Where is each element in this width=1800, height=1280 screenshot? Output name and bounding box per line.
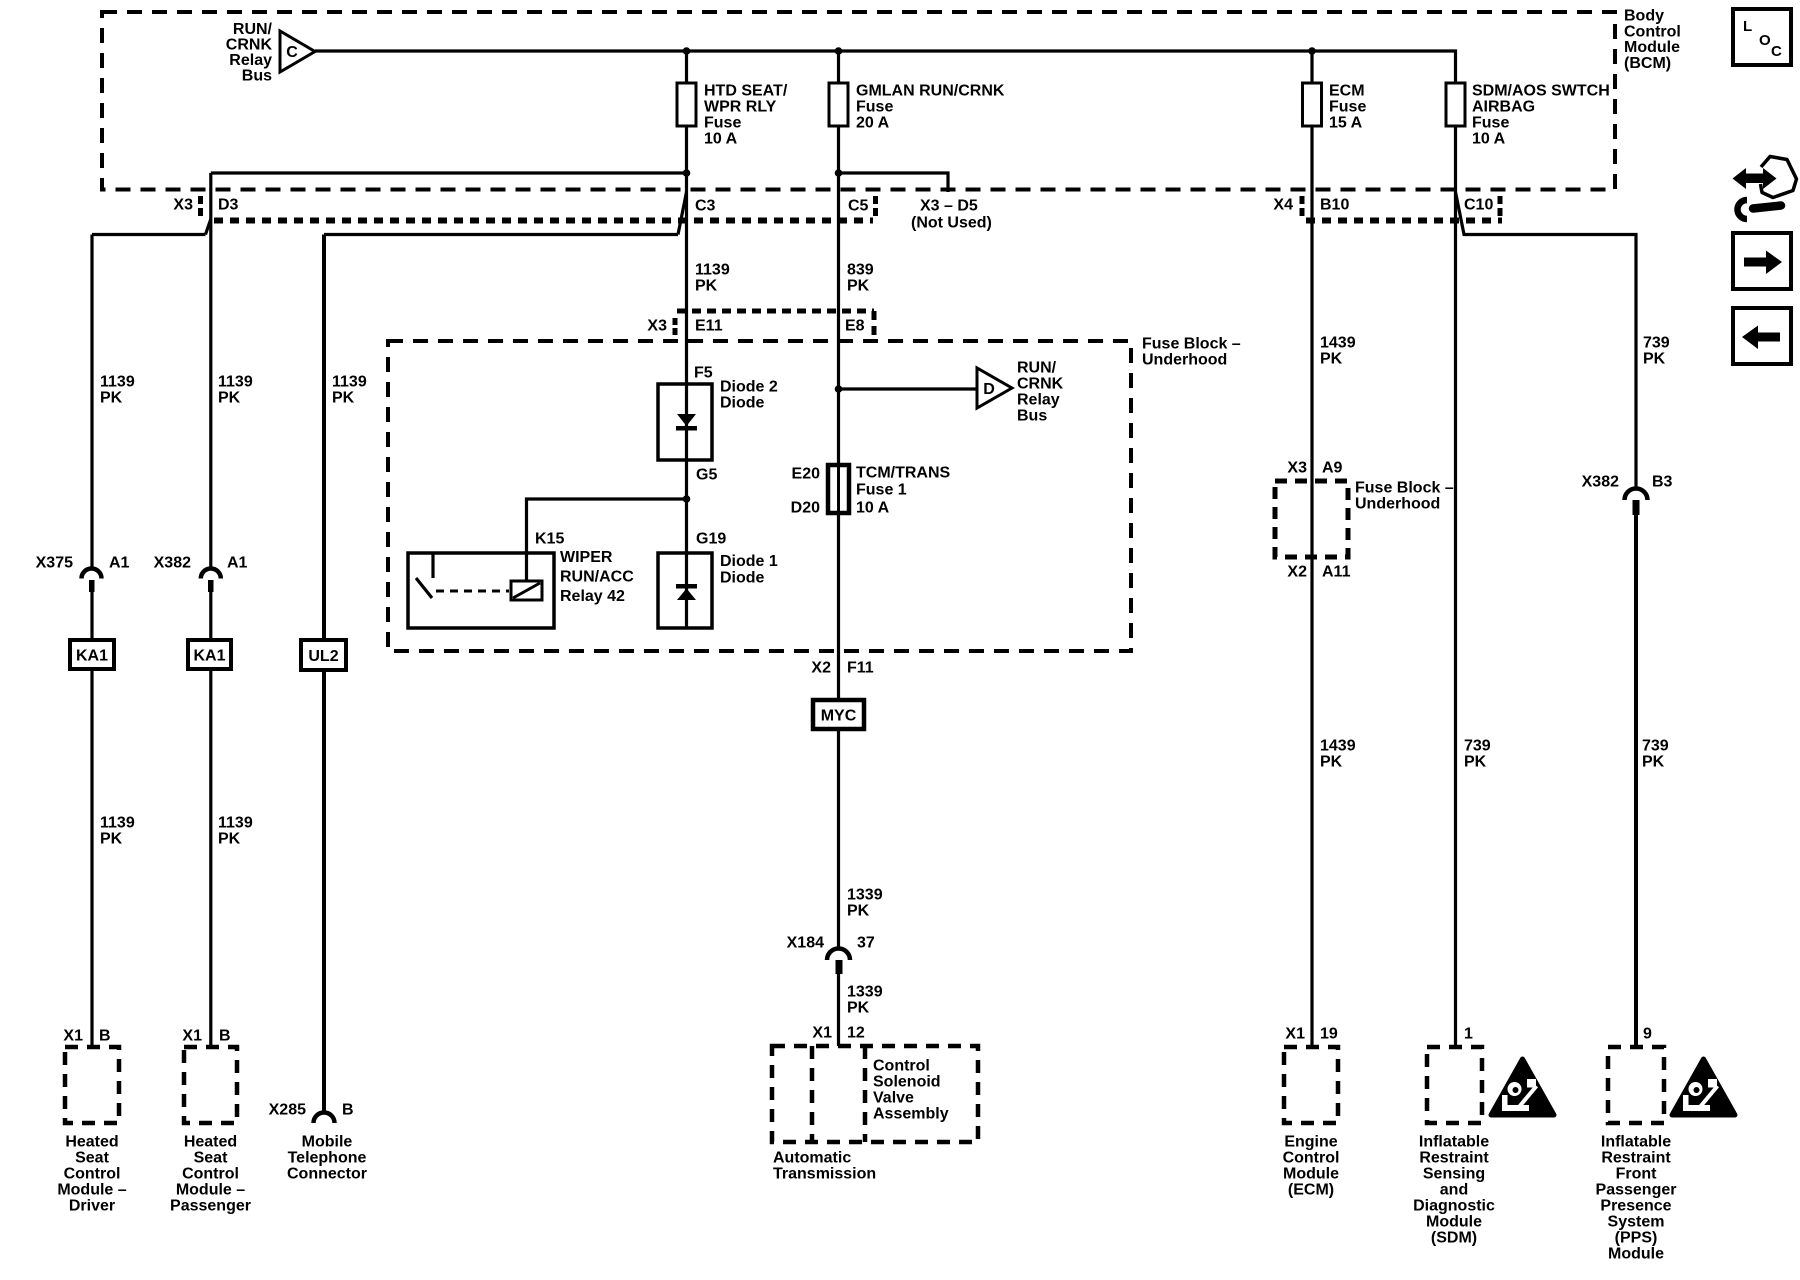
svg-text:PK: PK [100,390,123,407]
svg-text:1439: 1439 [1320,335,1356,352]
svg-text:PK: PK [332,390,355,407]
svg-text:PK: PK [218,390,241,407]
svg-text:Body: Body [1624,8,1664,25]
svg-text:D: D [983,381,995,398]
svg-text:1439: 1439 [1320,738,1356,755]
svg-text:X3: X3 [647,318,667,335]
svg-text:Presence: Presence [1600,1198,1671,1215]
svg-text:Inflatable: Inflatable [1601,1134,1671,1151]
svg-text:Fuse: Fuse [1329,99,1366,116]
svg-text:B: B [342,1102,354,1119]
svg-text:L: L [1743,18,1752,35]
svg-text:10 A: 10 A [1472,131,1506,148]
svg-text:B: B [99,1028,111,1045]
svg-text:X375: X375 [36,555,73,572]
svg-text:RUN/: RUN/ [233,21,273,38]
svg-text:X3: X3 [173,197,193,214]
svg-text:(Not Used): (Not Used) [911,215,992,232]
svg-text:Module: Module [1426,1214,1482,1231]
svg-text:WIPER: WIPER [560,549,613,566]
svg-text:Bus: Bus [242,68,272,85]
svg-text:Underhood: Underhood [1142,352,1227,369]
svg-text:PK: PK [1643,351,1666,368]
svg-text:Module –: Module – [57,1182,126,1199]
svg-text:F11: F11 [847,660,874,677]
svg-text:Telephone: Telephone [288,1150,367,1167]
svg-text:(ECM): (ECM) [1288,1182,1334,1199]
svg-text:1139: 1139 [218,815,253,832]
svg-text:739: 739 [1464,738,1491,755]
svg-text:Restraint: Restraint [1419,1150,1489,1167]
svg-text:Control: Control [1283,1150,1340,1167]
svg-text:Fuse: Fuse [704,115,741,132]
svg-text:Connector: Connector [287,1166,367,1183]
svg-text:Solenoid: Solenoid [873,1074,941,1091]
svg-text:WPR RLY: WPR RLY [704,99,777,116]
svg-text:Control: Control [182,1166,239,1183]
svg-text:15 A: 15 A [1329,115,1363,132]
svg-text:A9: A9 [1322,460,1343,477]
svg-text:D3: D3 [218,197,239,214]
svg-text:Front: Front [1616,1166,1658,1183]
svg-text:1339: 1339 [847,887,883,904]
svg-text:Module: Module [1624,39,1680,56]
svg-text:Engine: Engine [1284,1134,1337,1151]
svg-text:C5: C5 [848,198,869,215]
svg-text:X2: X2 [1287,564,1307,581]
svg-text:PK: PK [100,831,123,848]
svg-text:X1: X1 [63,1028,83,1045]
svg-text:739: 739 [1643,335,1670,352]
svg-text:E8: E8 [845,318,865,335]
svg-text:X382: X382 [1582,474,1619,491]
svg-text:(BCM): (BCM) [1624,55,1671,72]
svg-text:Valve: Valve [873,1090,914,1107]
svg-text:Assembly: Assembly [873,1106,949,1123]
svg-text:PK: PK [847,1000,870,1017]
svg-text:MYC: MYC [821,708,857,725]
svg-text:Fuse Block –: Fuse Block – [1355,480,1454,497]
svg-text:G5: G5 [696,467,717,484]
svg-text:12: 12 [847,1025,865,1042]
svg-text:PK: PK [218,831,241,848]
svg-text:Diode: Diode [720,395,765,412]
svg-text:X4: X4 [1273,197,1293,214]
svg-text:RUN/: RUN/ [1017,360,1057,377]
svg-text:RUN/ACC: RUN/ACC [560,569,634,586]
svg-text:Diode 2: Diode 2 [720,379,778,396]
svg-text:Sensing: Sensing [1423,1166,1485,1183]
svg-text:A11: A11 [1322,564,1351,581]
svg-text:X2: X2 [811,660,831,677]
svg-text:Diode 1: Diode 1 [720,553,778,570]
svg-text:C: C [1771,43,1782,60]
svg-text:37: 37 [857,935,875,952]
svg-text:10 A: 10 A [856,500,890,517]
svg-text:CRNK: CRNK [226,37,273,54]
svg-text:ECM: ECM [1329,83,1365,100]
svg-text:10 A: 10 A [704,131,738,148]
svg-text:1339: 1339 [847,984,883,1001]
svg-text:G19: G19 [696,531,726,548]
svg-text:AIRBAG: AIRBAG [1472,99,1535,116]
svg-text:739: 739 [1642,738,1669,755]
svg-text:Seat: Seat [75,1150,109,1167]
svg-text:B: B [219,1028,231,1045]
svg-text:A1: A1 [109,555,130,572]
svg-text:SDM/AOS SWTCH: SDM/AOS SWTCH [1472,83,1610,100]
svg-text:B3: B3 [1652,474,1673,491]
svg-text:Seat: Seat [194,1150,228,1167]
svg-text:UL2: UL2 [308,648,338,665]
svg-text:Mobile: Mobile [302,1134,353,1151]
svg-text:1139: 1139 [695,262,730,279]
svg-text:GMLAN RUN/CRNK: GMLAN RUN/CRNK [856,83,1005,100]
svg-text:Control: Control [64,1166,121,1183]
svg-text:Underhood: Underhood [1355,496,1440,513]
svg-text:Bus: Bus [1017,408,1047,425]
svg-text:PK: PK [1320,351,1343,368]
svg-text:20 A: 20 A [856,115,890,132]
svg-text:O: O [1759,32,1771,49]
svg-text:E20: E20 [792,466,821,483]
svg-text:X1: X1 [182,1028,202,1045]
svg-text:B10: B10 [1320,197,1349,214]
svg-text:Module: Module [1283,1166,1339,1183]
svg-text:1139: 1139 [100,374,135,391]
svg-text:Control: Control [873,1058,930,1075]
svg-text:X184: X184 [787,935,824,952]
svg-text:A1: A1 [227,555,248,572]
svg-text:C10: C10 [1464,197,1493,214]
svg-text:839: 839 [847,262,874,279]
svg-text:Restraint: Restraint [1601,1150,1671,1167]
svg-text:PK: PK [847,278,870,295]
svg-text:Module –: Module – [176,1182,245,1199]
svg-text:Fuse: Fuse [856,99,893,116]
svg-text:Heated: Heated [65,1134,118,1151]
svg-text:Relay: Relay [229,52,272,69]
svg-text:E11: E11 [695,318,723,335]
svg-text:and: and [1440,1182,1468,1199]
svg-text:D20: D20 [791,500,820,517]
svg-text:System: System [1608,1214,1665,1231]
svg-text:Relay 42: Relay 42 [560,588,625,605]
svg-text:CRNK: CRNK [1017,376,1064,393]
svg-text:Transmission: Transmission [773,1166,876,1183]
svg-text:19: 19 [1320,1026,1338,1043]
svg-text:C3: C3 [695,198,716,215]
svg-text:1139: 1139 [218,374,253,391]
svg-text:K15: K15 [535,531,564,548]
svg-text:Passenger: Passenger [1596,1182,1677,1199]
svg-text:KA1: KA1 [193,648,225,665]
svg-text:1139: 1139 [332,374,367,391]
svg-text:(SDM): (SDM) [1431,1230,1477,1247]
svg-text:Automatic: Automatic [773,1150,851,1167]
svg-text:TCM/TRANS: TCM/TRANS [856,465,951,482]
svg-text:X3 – D5: X3 – D5 [920,198,978,215]
svg-text:X382: X382 [154,555,191,572]
svg-text:Diode: Diode [720,570,765,587]
svg-text:PK: PK [1642,754,1665,771]
svg-text:X285: X285 [269,1102,306,1119]
svg-text:Control: Control [1624,23,1681,40]
svg-text:1: 1 [1464,1026,1473,1043]
svg-text:PK: PK [1320,754,1343,771]
svg-text:Fuse Block –: Fuse Block – [1142,336,1241,353]
svg-text:PK: PK [695,278,718,295]
svg-text:KA1: KA1 [76,648,108,665]
svg-text:Diagnostic: Diagnostic [1413,1198,1495,1215]
svg-text:Module: Module [1608,1246,1664,1263]
svg-text:HTD SEAT/: HTD SEAT/ [704,83,788,100]
svg-text:1139: 1139 [100,815,135,832]
svg-text:Inflatable: Inflatable [1419,1134,1489,1151]
svg-text:9: 9 [1643,1026,1652,1043]
svg-text:Fuse: Fuse [1472,115,1509,132]
svg-text:Relay: Relay [1017,392,1060,409]
svg-text:PK: PK [847,903,870,920]
svg-text:X1: X1 [1285,1026,1305,1043]
svg-text:C: C [286,44,298,61]
svg-text:Heated: Heated [184,1134,237,1151]
svg-text:PK: PK [1464,754,1487,771]
svg-text:(PPS): (PPS) [1615,1230,1658,1247]
svg-text:Passenger: Passenger [170,1198,251,1215]
svg-text:Fuse 1: Fuse 1 [856,482,907,499]
svg-text:F5: F5 [694,365,713,382]
svg-text:X1: X1 [812,1025,832,1042]
svg-text:X3: X3 [1287,460,1307,477]
svg-text:Driver: Driver [69,1198,115,1215]
